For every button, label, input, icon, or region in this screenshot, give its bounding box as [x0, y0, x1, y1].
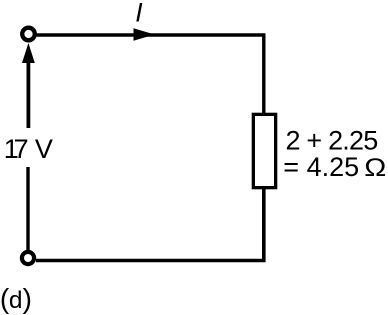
svg-text:I: I: [135, 0, 143, 27]
svg-text:17V: 17V: [4, 134, 53, 164]
svg-text:= 4.25: = 4.25: [283, 152, 359, 182]
svg-text:2 + 2.25: 2 + 2.25: [286, 125, 378, 155]
svg-text:Ω: Ω: [364, 153, 386, 181]
svg-text:(d): (d): [0, 283, 32, 314]
